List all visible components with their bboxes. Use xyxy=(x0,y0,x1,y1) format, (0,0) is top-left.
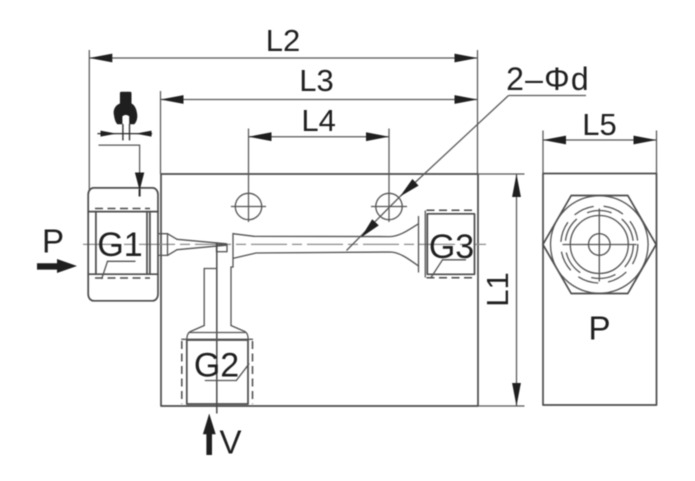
venturi tube xyxy=(233,224,419,267)
G2 flare shoulder xyxy=(187,326,248,341)
dimension L1 xyxy=(478,174,525,406)
svg-text:L2: L2 xyxy=(266,23,300,58)
2-Phi-d hole callout xyxy=(347,61,590,251)
svg-text:V: V xyxy=(219,424,241,461)
side view bore circle xyxy=(570,216,628,274)
screw width arrows xyxy=(97,131,152,137)
mounting hole circle 2 xyxy=(372,193,407,219)
mounting hole circle 1 xyxy=(232,193,266,219)
G3 collar xyxy=(419,211,426,277)
side view outer circle xyxy=(551,196,649,294)
needle seat box xyxy=(217,245,228,252)
dimension L4 xyxy=(249,103,390,222)
svg-text:P: P xyxy=(42,223,64,260)
svg-text:2–Φd: 2–Φd xyxy=(506,61,590,97)
side view thread circles xyxy=(561,206,638,283)
G2 label xyxy=(194,347,249,385)
main body front view xyxy=(161,174,478,406)
G3 port xyxy=(427,210,477,277)
svg-text:L5: L5 xyxy=(582,107,616,142)
svg-text:L1: L1 xyxy=(480,272,515,306)
dimension L3 xyxy=(161,50,478,174)
svg-text:P: P xyxy=(588,310,610,347)
svg-text:L4: L4 xyxy=(301,103,335,138)
V flow arrow xyxy=(203,414,216,456)
G2 vertical axis line xyxy=(216,243,218,414)
svg-text:G2: G2 xyxy=(194,347,239,385)
side view body xyxy=(543,174,657,406)
P inlet arrow xyxy=(37,259,77,273)
horizontal center line xyxy=(83,243,486,245)
G3 label xyxy=(429,228,474,278)
G1 label xyxy=(97,226,142,279)
side view hex nut xyxy=(543,196,656,294)
side view small circle xyxy=(589,234,611,256)
dimension L5 xyxy=(543,107,657,174)
adjustment screw icon xyxy=(114,92,138,141)
G2 port xyxy=(182,339,253,404)
svg-text:L3: L3 xyxy=(299,63,333,98)
side view center lines xyxy=(563,209,636,281)
needle stub and cone xyxy=(158,234,227,256)
G1 fitting nut xyxy=(88,188,158,301)
svg-text:G1: G1 xyxy=(97,226,142,264)
dimension L2 xyxy=(89,23,477,190)
screw leader line with arrow xyxy=(99,145,145,196)
G2 channel walls xyxy=(204,267,233,326)
